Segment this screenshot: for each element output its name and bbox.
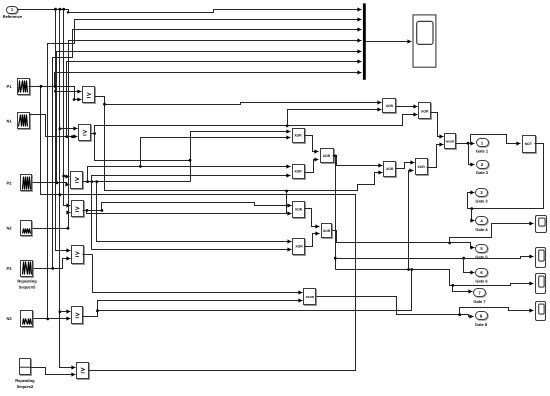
wire x91 down: [91, 182, 93, 250]
svg-text:Repeating: Repeating: [15, 378, 35, 383]
scope Scope1 (large): [413, 15, 436, 67]
wire N1 to R2: [30, 115, 78, 137]
svg-text:NXOR: NXOR: [446, 139, 455, 143]
svg-text:XOR: XOR: [418, 165, 426, 169]
source Repeating Sequen2: [21, 360, 32, 376]
wire to Gate7: [453, 286, 473, 292]
wire R3 out: [83, 181, 191, 183]
node X4 branch: [334, 155, 337, 158]
wire P3 up to mux row3: [53, 30, 362, 269]
wire R2 to X1 X2 bottom: [95, 115, 418, 134]
node ref branch a: [54, 8, 57, 11]
node ref R6 tap: [59, 310, 62, 313]
node ref branch c: [62, 8, 65, 11]
logic NOT U3: [524, 137, 537, 154]
svg-text:NOT: NOT: [525, 142, 533, 146]
wire X4 to X6 top: [333, 156, 383, 166]
svg-text:NXOR: NXOR: [306, 295, 315, 299]
wire N1 up to mux row6: [67, 62, 362, 137]
svg-text:Repeating: Repeating: [17, 279, 37, 284]
node R1 junction: [103, 103, 106, 106]
wire R5 out: [83, 254, 93, 256]
logic XOR X8: [294, 203, 306, 219]
wire R2 to X3 top: [95, 132, 291, 161]
svg-text:Gate 1: Gate 1: [476, 149, 489, 154]
outport Gate 7: [474, 289, 486, 297]
outport Gate 8: [476, 312, 488, 320]
svg-text:Gate 4: Gate 4: [475, 227, 488, 232]
wire R7 out up: [41, 87, 356, 371]
wire to scope S2: [464, 257, 534, 259]
wire R2 branch to X1 bottom: [288, 110, 382, 126]
wire R4 to X8 bottom: [87, 211, 292, 214]
scope small S4: [536, 302, 546, 321]
outport Gate 4: [476, 217, 488, 225]
wire ref to R5 via A: [56, 10, 71, 251]
node R3 j2: [90, 180, 93, 183]
node R2 branch X1: [286, 124, 289, 127]
wire to NOT: [469, 143, 471, 145]
node R7 mesh cross: [59, 193, 62, 196]
svg-text:XOR: XOR: [421, 109, 429, 113]
wire ref to R4 via C: [64, 10, 71, 206]
wire ref tap R3: [64, 176, 70, 178]
node R3 j1: [86, 180, 89, 183]
logic XOR X3: [294, 130, 306, 144]
wire X8 to X10 top: [305, 209, 320, 227]
wire to Gate2: [469, 144, 475, 165]
wire riser x190: [190, 161, 192, 182]
node R7 mesh tap: [40, 85, 43, 88]
node ref R2 tap: [59, 127, 62, 130]
outport Gate 6: [476, 269, 488, 277]
svg-text:XOR: XOR: [295, 244, 303, 248]
svg-text:XOR: XOR: [323, 154, 331, 158]
wire R1 out: [95, 97, 383, 191]
wire to scope S1: [450, 224, 534, 243]
wire R6 row right: [98, 270, 412, 311]
node ref R3 tap: [62, 175, 65, 178]
wire riser to X7 bottom: [409, 171, 414, 270]
wire P1 to R1: [29, 87, 82, 100]
source P2 repeating sequence: [22, 176, 33, 192]
node N3 up tap: [46, 318, 49, 321]
node ref branch b: [59, 8, 62, 11]
wire P3 to R5: [34, 259, 71, 269]
node R2 junction: [93, 132, 96, 135]
wire tap to X3 bottom: [141, 138, 291, 167]
wire NXOR1 out: [456, 143, 475, 145]
node Gate7 junction: [451, 284, 454, 287]
svg-text:N2: N2: [6, 226, 12, 231]
node P1 up tap: [54, 85, 57, 88]
node X3 bottom tap: [139, 165, 142, 168]
svg-text:XOR: XOR: [386, 167, 394, 171]
outport Gate 5: [476, 245, 488, 253]
svg-text:Sequen2: Sequen2: [17, 384, 34, 389]
wire to scope S4: [460, 308, 534, 315]
svg-text:P3: P3: [7, 266, 13, 271]
svg-text:Gate 7: Gate 7: [473, 299, 486, 304]
wire R3 down: [97, 182, 292, 242]
outport Gate 2: [477, 161, 489, 169]
svg-text:Gate 3: Gate 3: [475, 198, 488, 203]
node R6 junction: [96, 309, 99, 312]
wire N2 to R4: [33, 213, 71, 229]
node Gate8 junction: [458, 313, 461, 316]
wire row 269 to Gate7 area: [336, 270, 534, 286]
logic XOR X9: [294, 240, 306, 256]
wire ref tap R1: [56, 91, 82, 93]
source P1 repeating sequence: [19, 80, 31, 96]
wire R3 to X5 bottom: [92, 176, 291, 182]
logic XOR X10: [323, 225, 333, 239]
svg-text:XOR: XOR: [323, 229, 331, 233]
wire X2 to NXOR1 top: [431, 113, 444, 137]
wire NXOR2 out: [317, 297, 474, 317]
svg-text:XOR: XOR: [294, 170, 302, 174]
scope small S1: [536, 216, 547, 233]
node N1 corner: [71, 135, 74, 138]
logic XOR X7: [417, 160, 429, 176]
relational operator R5: [73, 247, 85, 265]
wire P2 up to mux row5: [57, 52, 362, 183]
logic NXOR U2: [305, 290, 317, 306]
svg-text:Sequen5: Sequen5: [19, 284, 36, 289]
wire N2 up to mux row4: [69, 41, 362, 229]
wire R2 out: [91, 133, 95, 135]
logic XOR X6: [385, 163, 397, 178]
wire N3 up to mux row2: [48, 20, 362, 319]
wire row to Gate6 junction: [336, 258, 464, 260]
wire R4 to X8 top: [102, 203, 292, 211]
wire tap down x286: [286, 191, 288, 214]
wire X1 to X2: [396, 106, 418, 108]
wire ref to R7: [60, 10, 76, 368]
wire mux to scope: [366, 41, 412, 43]
source N3 repeating sequence: [22, 312, 34, 328]
node R4 j1: [86, 209, 89, 212]
svg-text:P1: P1: [7, 84, 13, 89]
node X8 tap: [285, 190, 288, 193]
wire ref tap R2: [60, 128, 78, 130]
wire to Gate6: [464, 259, 475, 273]
node N2 up tap: [67, 227, 70, 230]
outport Gate 1: [477, 139, 489, 147]
relational operator R2: [80, 126, 92, 142]
node P1 corner: [73, 98, 76, 101]
wire R5 to X9 bottom: [92, 249, 292, 251]
relational operator R1: [84, 88, 96, 104]
wire NOT feed loop: [471, 135, 521, 144]
node ref R1 tap: [54, 90, 57, 93]
wire NOT out loop: [468, 144, 544, 209]
wire X4 branch down: [335, 156, 337, 270]
node Gate6 row tap: [334, 257, 337, 260]
relational operator R3: [72, 173, 84, 190]
wire ref tap R6: [60, 311, 71, 313]
svg-text:XOR: XOR: [294, 134, 302, 138]
outport Gate 3: [476, 189, 488, 197]
svg-text:Gate 8: Gate 8: [475, 322, 488, 327]
wire to Gate4: [472, 209, 475, 221]
node P3 up tap: [51, 267, 54, 270]
relational operator R4: [73, 202, 85, 218]
svg-text:Reference: Reference: [3, 14, 23, 19]
wire R5 to NXOR2 top: [93, 255, 303, 293]
wire R3 to X5 top: [88, 167, 291, 182]
node R3 j3: [95, 180, 98, 183]
mux bar: [363, 3, 366, 79]
wire R6 out: [83, 301, 303, 317]
node P2 up tap: [56, 181, 59, 184]
svg-text:N1: N1: [6, 118, 12, 123]
wire P1 up to mux row7: [55, 73, 362, 87]
logic XOR X1: [384, 100, 397, 114]
wire P2 to R3: [33, 183, 70, 185]
source N1 repeating sequence: [19, 114, 31, 130]
wire X5 to X4 bottom: [305, 160, 319, 173]
node riser tap: [189, 159, 192, 162]
source P3 Repeating Sequen5: [22, 262, 34, 278]
node NXOR1 junction: [467, 142, 470, 145]
logic XOR X5: [294, 166, 306, 180]
wire N3 to R6: [34, 318, 71, 320]
inport Reference (1): [7, 7, 18, 14]
node N1 up tap: [65, 135, 68, 138]
logic XOR X4: [322, 150, 335, 164]
logic NXOR U1: [446, 135, 457, 150]
svg-text:P2: P2: [7, 180, 13, 185]
node ref corner: [67, 11, 69, 13]
node NOT loop junction: [470, 207, 473, 210]
svg-text:XOR: XOR: [386, 104, 394, 108]
relational operator R7: [78, 364, 90, 380]
wire R1 to X1 top: [105, 103, 382, 105]
logic XOR X2: [420, 104, 432, 120]
node R6 row end: [411, 268, 414, 271]
wire X10 out: [332, 231, 475, 248]
relational operator R6: [73, 308, 84, 325]
svg-text:XOR: XOR: [295, 208, 303, 212]
wire X7 to NXOR1 bottom: [427, 145, 444, 168]
scope small S3: [536, 274, 546, 294]
node X7 riser tap: [407, 268, 410, 271]
node X10 j2: [448, 242, 451, 245]
wire X3 to X4 top: [305, 136, 319, 152]
source N2 repeating sequence: [22, 222, 33, 237]
wire X9 to X10 bottom: [305, 234, 320, 247]
wire R4 out: [83, 210, 102, 212]
svg-text:Gate 6: Gate 6: [475, 278, 488, 283]
svg-text:Gate 2: Gate 2: [476, 170, 489, 175]
node R4 j2: [101, 209, 104, 212]
svg-text:N3: N3: [6, 316, 12, 321]
wire Reference to bus: [18, 10, 362, 13]
node Gate6 junction: [462, 257, 465, 260]
wire RS2 to R7: [31, 368, 76, 375]
scope small S2: [536, 248, 546, 268]
wire X6 to X7 top: [396, 163, 415, 169]
